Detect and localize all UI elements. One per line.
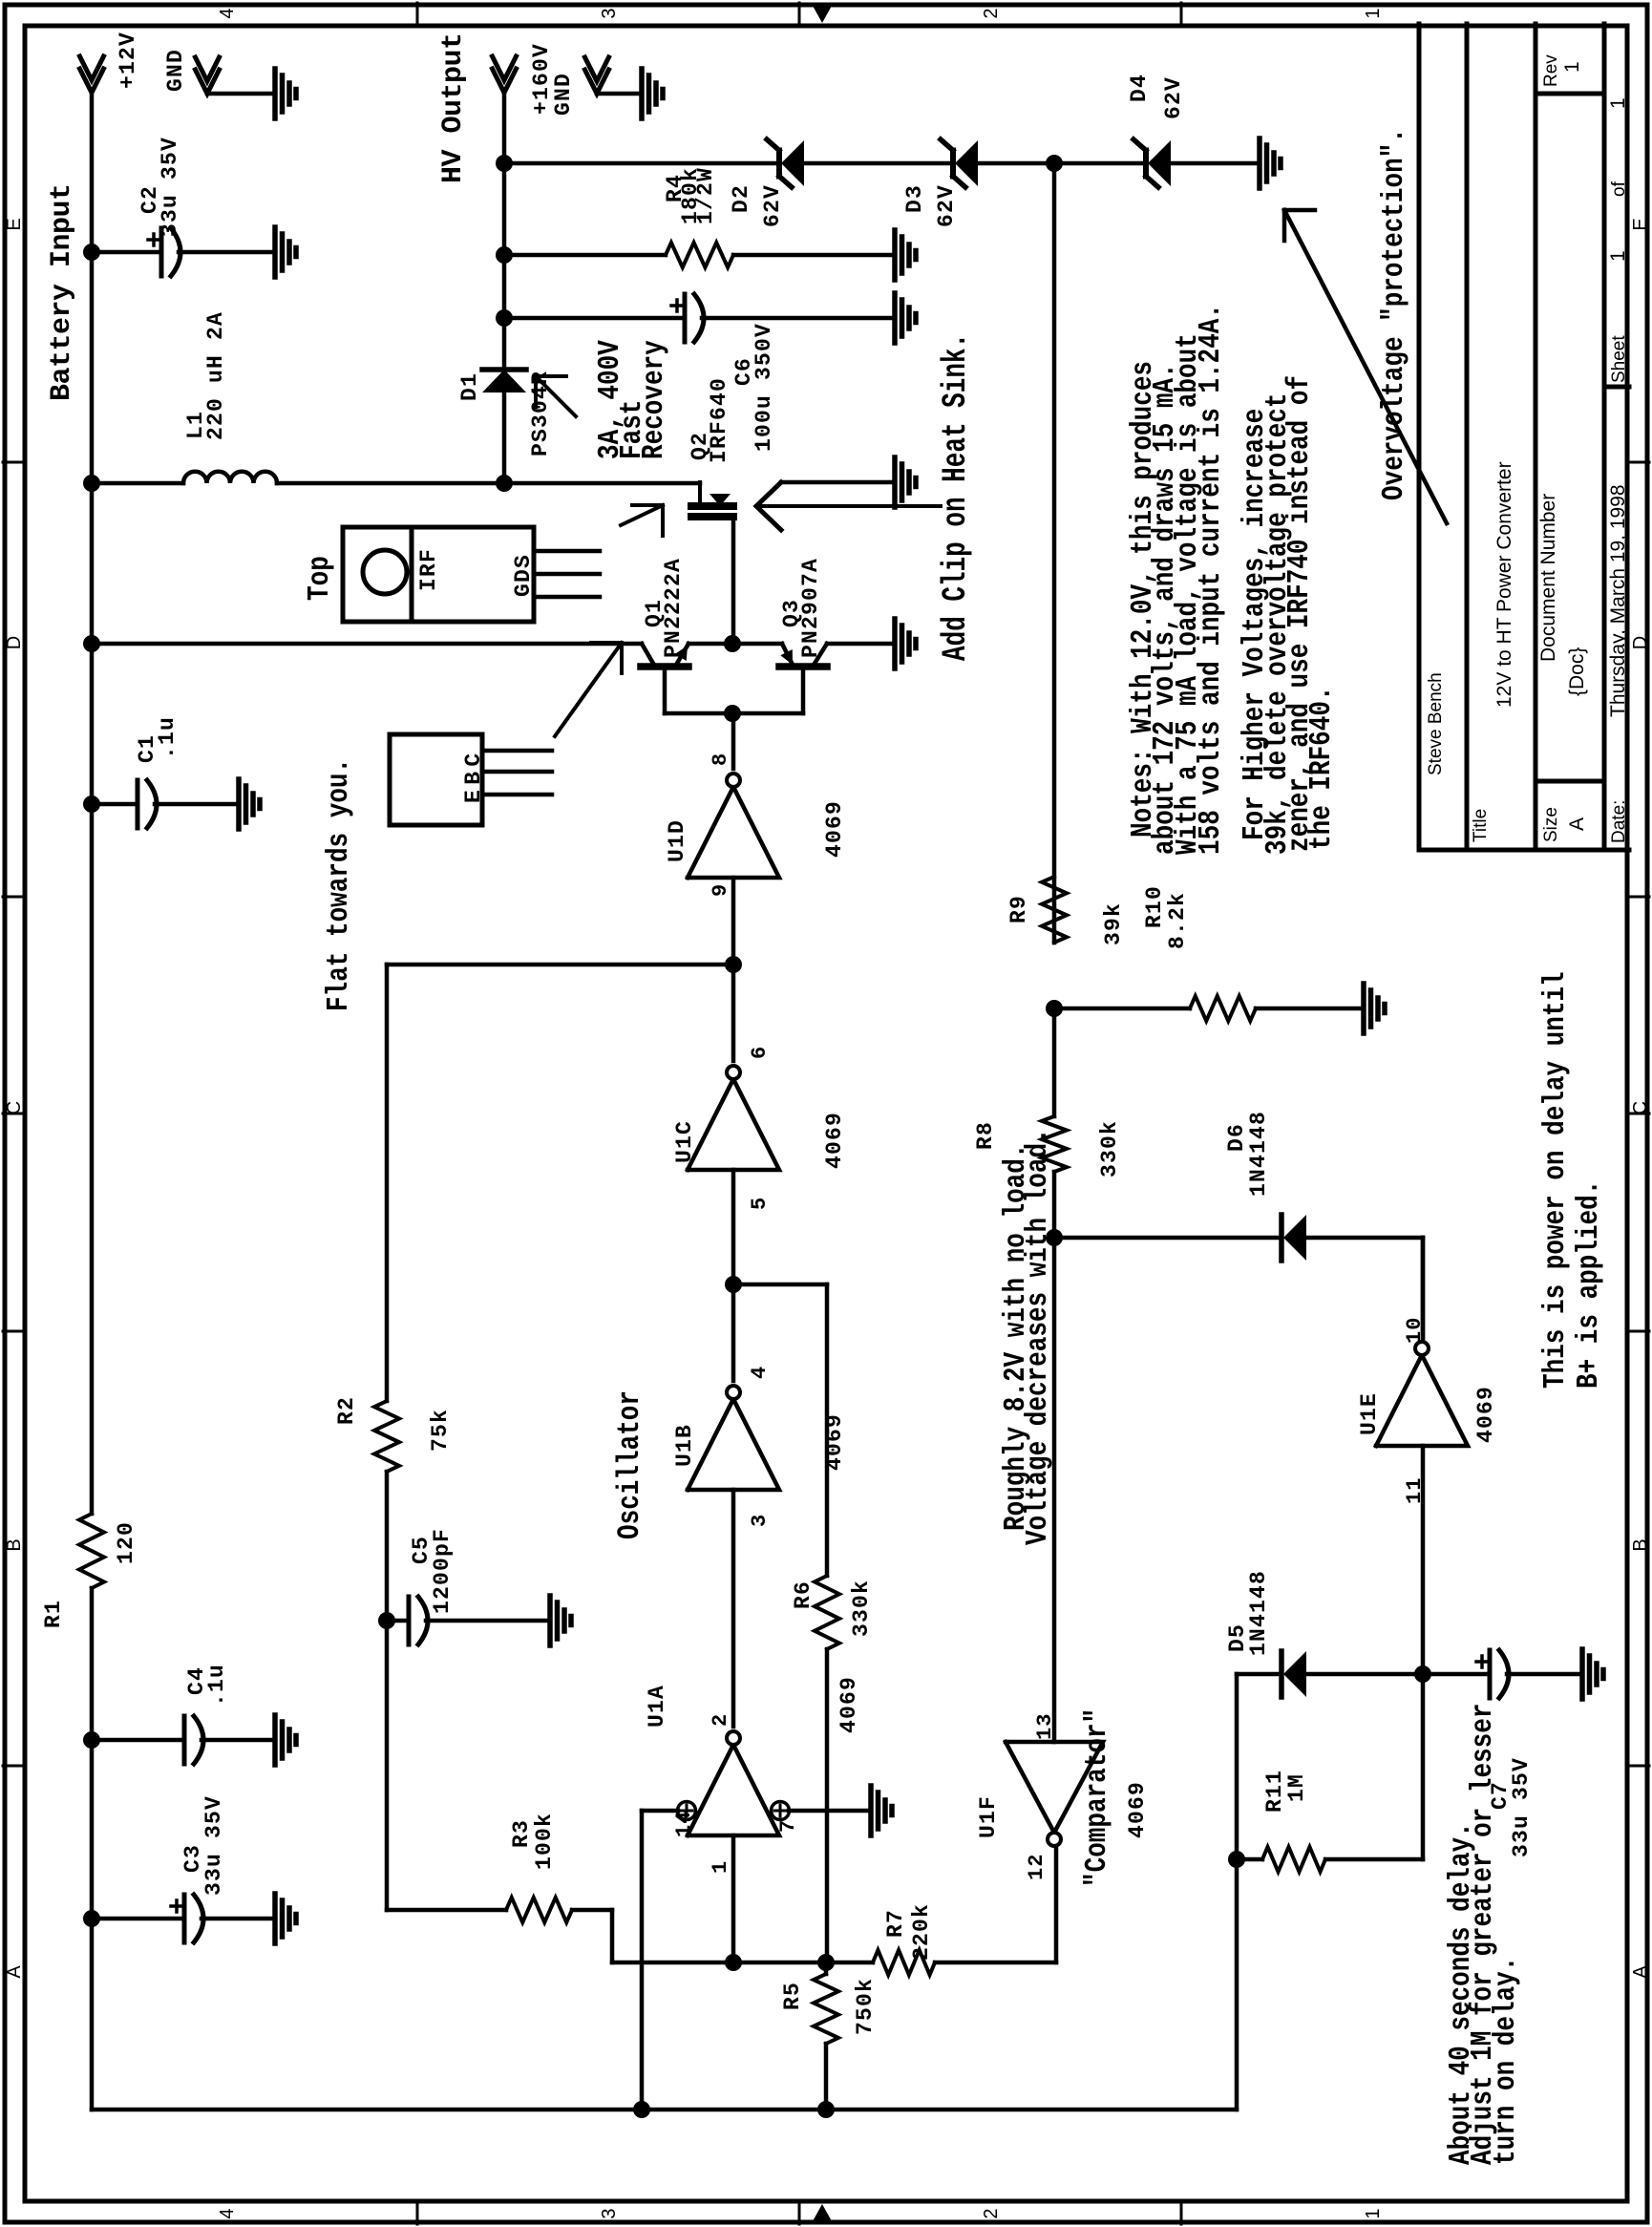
svg-text:R10: R10 bbox=[1142, 885, 1167, 928]
wire U1A out to U1B bbox=[731, 1490, 736, 1727]
junction B+ R5 bbox=[817, 2101, 835, 2118]
ground C3 bbox=[272, 1894, 278, 1943]
wire C5 branch bbox=[387, 1619, 409, 1623]
svg-text:33u 35V: 33u 35V bbox=[201, 1795, 226, 1896]
ground C7 bbox=[1579, 1649, 1585, 1699]
node GND port HV bbox=[585, 70, 609, 94]
svg-text:Voltage decreases with load.: Voltage decreases with load. bbox=[1021, 1128, 1055, 1545]
junction gate node bbox=[724, 635, 741, 652]
svg-text:GND: GND bbox=[551, 73, 576, 116]
wire input column bbox=[612, 1961, 873, 1965]
svg-text:Flat towards you.: Flat towards you. bbox=[322, 758, 356, 1011]
zone number ticks right bbox=[416, 3, 419, 24]
inductor L1 bbox=[183, 472, 277, 483]
svg-text:1/2W: 1/2W bbox=[693, 167, 718, 224]
svg-text:R1: R1 bbox=[41, 1600, 66, 1628]
svg-text:IRF: IRF bbox=[416, 548, 441, 591]
svg-text:62V: 62V bbox=[760, 184, 785, 227]
svg-text:9: 9 bbox=[709, 883, 732, 897]
svg-text:12V to HT Power Converter: 12V to HT Power Converter bbox=[1493, 461, 1515, 708]
junction rail-Q1 bbox=[83, 635, 100, 652]
wire delay node column bbox=[1237, 1672, 1280, 1677]
svg-text:HV Output: HV Output bbox=[437, 32, 470, 183]
svg-text:1: 1 bbox=[1607, 250, 1629, 262]
svg-text:3: 3 bbox=[599, 2208, 620, 2218]
svg-text:4069: 4069 bbox=[1473, 1386, 1498, 1443]
wire R11 branch bbox=[1237, 1857, 1262, 1862]
wire R6 line bbox=[825, 1284, 830, 1576]
arrow overvoltage bbox=[1284, 210, 1447, 523]
ground C4 bbox=[272, 1715, 278, 1765]
svg-text:PN2907A: PN2907A bbox=[798, 558, 823, 658]
svg-text:2: 2 bbox=[981, 8, 1002, 18]
svg-text:Thursday, March 19, 1998: Thursday, March 19, 1998 bbox=[1607, 484, 1629, 717]
svg-text:1: 1 bbox=[709, 1860, 732, 1874]
svg-text:Title: Title bbox=[1471, 809, 1491, 842]
svg-text:A: A bbox=[1566, 817, 1588, 831]
resistor R5 bbox=[814, 1974, 838, 2044]
junction rail-C2 bbox=[83, 244, 100, 261]
svg-text:Date:: Date: bbox=[1609, 800, 1629, 843]
wire R4 branch bbox=[504, 253, 666, 258]
junction divider R10 bbox=[1046, 1000, 1063, 1017]
op-amp U1A 4069 inverter bbox=[688, 1745, 779, 1835]
svg-text:R8: R8 bbox=[973, 1121, 998, 1150]
svg-text:4069: 4069 bbox=[822, 800, 847, 858]
svg-text:6: 6 bbox=[748, 1046, 772, 1059]
svg-text:U1B: U1B bbox=[672, 1424, 697, 1467]
svg-text:1: 1 bbox=[1363, 8, 1384, 18]
junction U1B out R6 bbox=[725, 1276, 742, 1293]
svg-text:+12V: +12V bbox=[116, 32, 140, 89]
svg-text:B+ is applied.: B+ is applied. bbox=[1572, 1180, 1606, 1389]
svg-text:33u 35V: 33u 35V bbox=[1509, 1757, 1534, 1857]
svg-text:39k: 39k bbox=[1101, 902, 1126, 945]
svg-text:turn on delay.: turn on delay. bbox=[1489, 1957, 1523, 2165]
svg-text:3: 3 bbox=[599, 8, 620, 18]
diode D1 PS304R bbox=[482, 370, 526, 392]
svg-text:120: 120 bbox=[114, 1521, 138, 1564]
resistor R4 bbox=[666, 243, 733, 267]
svg-text:1200pF: 1200pF bbox=[430, 1528, 455, 1614]
centering mark right edge bbox=[813, 6, 832, 23]
wire R11 to delay node bbox=[1421, 1674, 1426, 1859]
wire zener chain bbox=[504, 161, 777, 166]
junction rail-L1 bbox=[83, 475, 100, 492]
ground U1A pin7 bbox=[868, 1786, 874, 1835]
wire R6 drop bbox=[733, 1283, 827, 1287]
resistor R3 bbox=[506, 1898, 572, 1922]
junction rail-C4 bbox=[83, 1731, 100, 1749]
junction HV-zeners bbox=[496, 155, 513, 172]
capacitor C7 bbox=[1488, 1650, 1493, 1698]
svg-text:of: of bbox=[1609, 180, 1629, 197]
diode D4 zener 62V bbox=[1148, 140, 1171, 186]
op-amp U1E 4069 inverter bbox=[1376, 1355, 1468, 1446]
svg-text:8.2k: 8.2k bbox=[1165, 892, 1190, 949]
diode D3 zener 62V bbox=[955, 140, 978, 186]
resistor R10 bbox=[1190, 996, 1256, 1021]
svg-text:Steve Bench: Steve Bench bbox=[1426, 672, 1446, 775]
svg-text:75k: 75k bbox=[428, 1409, 453, 1452]
wire pin7 to ground bbox=[789, 1809, 871, 1813]
svg-text:U1C: U1C bbox=[672, 1120, 697, 1163]
wire U1A input bbox=[731, 1835, 736, 1962]
svg-text:1: 1 bbox=[1363, 2208, 1384, 2218]
svg-text:D: D bbox=[4, 636, 25, 649]
svg-text:1N4148: 1N4148 bbox=[1246, 1111, 1271, 1197]
wire rail to L1 bbox=[92, 481, 183, 486]
svg-text:{Doc}: {Doc} bbox=[1566, 647, 1588, 696]
resistor R8 bbox=[1042, 1116, 1067, 1172]
svg-text:IRF640: IRF640 bbox=[707, 377, 731, 463]
wire emitters bbox=[688, 642, 782, 647]
ground C5 bbox=[547, 1596, 553, 1645]
wire Q1 base bbox=[663, 667, 667, 713]
ground zener chain bbox=[1257, 138, 1262, 188]
wire B+ left drop bbox=[92, 2108, 1237, 2112]
svg-text:1M: 1M bbox=[1284, 1773, 1309, 1802]
wire U1B out to U1C bbox=[731, 1170, 736, 1381]
junction delay node bbox=[1414, 1665, 1431, 1683]
transistor Q3 PN2907A bbox=[779, 663, 827, 670]
svg-text:D: D bbox=[1630, 636, 1651, 649]
svg-text:Size: Size bbox=[1541, 807, 1561, 842]
svg-text:4069: 4069 bbox=[837, 1676, 861, 1733]
capacitor C1 bbox=[136, 780, 140, 828]
pin 14 power bbox=[678, 1802, 696, 1820]
op-amp U1C 4069 inverter bbox=[688, 1079, 779, 1170]
svg-text:Overvoltage "protection".: Overvoltage "protection". bbox=[1377, 128, 1411, 500]
svg-text:Top: Top bbox=[303, 556, 337, 601]
wire divider line bbox=[1052, 1172, 1057, 1742]
svg-text:2: 2 bbox=[981, 2208, 1002, 2218]
wire U1F out bbox=[1054, 1846, 1059, 1962]
junction divider D6 bbox=[1046, 1229, 1063, 1246]
svg-text:62V: 62V bbox=[934, 184, 959, 227]
wire pin14 to B+ bbox=[642, 1809, 678, 1813]
junction U1C out feedback bbox=[725, 956, 742, 973]
svg-text:A: A bbox=[1630, 1965, 1651, 1979]
wire R10 branch bbox=[1054, 1007, 1190, 1011]
wire U1D out to bases bbox=[731, 713, 736, 769]
svg-text:R3: R3 bbox=[509, 1819, 534, 1848]
title block frame bbox=[1417, 24, 1422, 850]
node +160V port bbox=[493, 69, 517, 93]
svg-text:7: 7 bbox=[776, 1819, 800, 1833]
wire R3 to input column bbox=[610, 1910, 615, 1962]
wire Q3 collector to ground bbox=[827, 642, 895, 647]
node GND port bbox=[196, 70, 220, 94]
svg-text:12: 12 bbox=[1025, 1854, 1048, 1880]
svg-text:3: 3 bbox=[748, 1514, 772, 1527]
svg-text:330k: 330k bbox=[849, 1580, 874, 1637]
op-amp U1D 4069 inverter bbox=[688, 787, 779, 878]
svg-text:D2: D2 bbox=[729, 184, 753, 213]
svg-text:A: A bbox=[4, 1965, 25, 1979]
svg-text:U1D: U1D bbox=[665, 819, 689, 862]
centering mark bottom edge bbox=[1629, 1113, 1649, 1115]
svg-text:14: 14 bbox=[672, 1811, 696, 1837]
wire rail to Q1 collector bbox=[92, 642, 642, 647]
svg-text:"Comparator": "Comparator" bbox=[1080, 1708, 1114, 1887]
capacitor C6 bbox=[683, 294, 688, 342]
node +12V port bbox=[80, 69, 104, 93]
wire C3 branch bbox=[92, 1917, 184, 1921]
svg-text:B: B bbox=[4, 1538, 25, 1551]
svg-text:Sheet: Sheet bbox=[1609, 335, 1629, 383]
pins TO-92 bbox=[482, 793, 552, 797]
svg-text:4: 4 bbox=[217, 2208, 238, 2218]
ground C1 bbox=[236, 779, 242, 829]
svg-text:1: 1 bbox=[1607, 97, 1629, 109]
arrow Add Clip bbox=[756, 504, 941, 508]
svg-text:E: E bbox=[1630, 218, 1651, 230]
svg-text:D1: D1 bbox=[457, 372, 482, 401]
svg-text:R2: R2 bbox=[334, 1396, 359, 1425]
wire C4 branch bbox=[92, 1738, 184, 1743]
diode D5 1N4148 bbox=[1283, 1651, 1306, 1697]
wire HV line bbox=[502, 392, 507, 483]
wire U1C out to U1D bbox=[731, 878, 736, 1061]
arrow D1 note bbox=[536, 376, 576, 416]
svg-text:4069: 4069 bbox=[822, 1112, 847, 1169]
centering mark top edge bbox=[3, 1113, 23, 1115]
svg-text:PN2222A: PN2222A bbox=[661, 558, 686, 658]
resistor R7 bbox=[873, 1950, 935, 1975]
transistor Q1 PN2222A bbox=[641, 663, 688, 670]
capacitor C2 bbox=[159, 228, 164, 276]
svg-text:GND: GND bbox=[163, 49, 188, 92]
wire L1 to drain node bbox=[277, 481, 700, 486]
svg-text:220k: 220k bbox=[909, 1903, 934, 1961]
ground R10 bbox=[1361, 984, 1366, 1033]
svg-text:4: 4 bbox=[217, 8, 238, 18]
svg-text:8: 8 bbox=[709, 753, 732, 766]
svg-text:2: 2 bbox=[709, 1713, 732, 1727]
wire gate drive bbox=[731, 517, 736, 644]
svg-text:R6: R6 bbox=[791, 1580, 815, 1609]
svg-text:U1E: U1E bbox=[1357, 1392, 1382, 1435]
svg-text:B: B bbox=[1630, 1538, 1651, 1551]
svg-text:D4: D4 bbox=[1127, 74, 1152, 102]
junction B+ R11 bbox=[1228, 1851, 1245, 1868]
op-amp U1B 4069 inverter bbox=[688, 1399, 779, 1490]
svg-text:U1A: U1A bbox=[645, 1685, 669, 1728]
wire delay node to U1E bbox=[1421, 1446, 1426, 1674]
junction B+ pin14 bbox=[633, 2101, 650, 2118]
junction rail-C1 bbox=[83, 795, 100, 813]
wire +12V rail bbox=[90, 1588, 95, 2110]
svg-text:Oscillator: Oscillator bbox=[611, 1390, 647, 1539]
svg-text:Rev: Rev bbox=[1541, 54, 1561, 87]
junction HV-R4 bbox=[496, 246, 513, 264]
resistor R1 bbox=[79, 1514, 104, 1588]
ground R4 bbox=[892, 230, 898, 280]
svg-text:.1u: .1u bbox=[155, 716, 180, 759]
svg-text:R5: R5 bbox=[780, 1982, 805, 2010]
resistor R9 bbox=[1042, 877, 1067, 943]
pins TO-220 bbox=[534, 595, 600, 600]
svg-text:the IRF640.: the IRF640. bbox=[1304, 686, 1339, 850]
wire D6 branch bbox=[1054, 1236, 1280, 1241]
svg-text:.1u: .1u bbox=[204, 1664, 229, 1707]
wire B+ bottom bbox=[1235, 1674, 1239, 2110]
diode D6 1N4148 bbox=[1283, 1215, 1306, 1261]
arrow TO-220 to Q2 bbox=[621, 505, 663, 525]
svg-text:E: E bbox=[4, 218, 25, 230]
capacitor C4 bbox=[182, 1716, 187, 1764]
svg-text:220 uH 2A: 220 uH 2A bbox=[203, 311, 228, 440]
wire GND port to ground bbox=[207, 92, 275, 96]
svg-text:158 volts and input current is: 158 volts and input current is 1.24A. bbox=[1194, 304, 1228, 855]
package TO-92 drawing bbox=[390, 734, 482, 825]
svg-text:Battery Input: Battery Input bbox=[46, 183, 78, 401]
svg-text:750k: 750k bbox=[853, 1978, 878, 2035]
svg-text:330k: 330k bbox=[1097, 1120, 1122, 1177]
pin 7 power bbox=[772, 1802, 790, 1820]
wire Q3 base bbox=[801, 667, 806, 713]
capacitor C3 bbox=[182, 1895, 187, 1942]
svg-text:U1F: U1F bbox=[976, 1795, 1001, 1838]
svg-text:100k: 100k bbox=[532, 1813, 557, 1870]
svg-text:1: 1 bbox=[1561, 61, 1583, 73]
ground Q2 source bbox=[892, 457, 898, 507]
resistor R11 bbox=[1262, 1847, 1325, 1872]
wire HV gnd port bbox=[597, 92, 642, 96]
capacitor C5 bbox=[407, 1597, 412, 1644]
transistor Q2 IRF640 bbox=[691, 502, 733, 510]
op-amp U1F 4069 inverter bbox=[1006, 1742, 1103, 1833]
svg-text:Add Clip on Heat Sink.: Add Clip on Heat Sink. bbox=[938, 333, 976, 661]
svg-text:Recovery: Recovery bbox=[637, 340, 671, 459]
svg-text:R9: R9 bbox=[1006, 895, 1031, 923]
svg-text:1N4148: 1N4148 bbox=[1246, 1570, 1271, 1656]
wire Q2 source to ground bbox=[781, 480, 895, 485]
wire feedback U1C-U1D to R2 line bbox=[387, 963, 733, 967]
junction HV-C6 bbox=[496, 309, 513, 327]
package TO-220 drawing bbox=[343, 527, 534, 622]
zone letter ticks bottom bbox=[1629, 1765, 1649, 1768]
svg-text:4: 4 bbox=[748, 1366, 772, 1379]
svg-text:13: 13 bbox=[1033, 1713, 1057, 1740]
wire R5 line bbox=[824, 2044, 829, 2110]
ground gnd-port bbox=[272, 69, 278, 118]
junction bases-U1D bbox=[724, 705, 741, 722]
wire D6 to U1E out bbox=[1421, 1238, 1426, 1341]
ground C2 bbox=[272, 227, 278, 277]
svg-text:100u 350V: 100u 350V bbox=[752, 323, 776, 452]
svg-text:D3: D3 bbox=[902, 184, 927, 213]
svg-text:Document Number: Document Number bbox=[1537, 494, 1559, 662]
svg-text:4069: 4069 bbox=[1125, 1781, 1150, 1838]
junction drain-D1 bbox=[496, 475, 513, 492]
junction R6 R5 node bbox=[817, 1954, 835, 1971]
centering mark left edge bbox=[813, 2204, 832, 2221]
junction C5 node bbox=[378, 1612, 395, 1629]
svg-text:This is power on delay until: This is power on delay until bbox=[1538, 971, 1573, 1389]
resistor R2 bbox=[374, 1401, 399, 1472]
zone number ticks left bbox=[416, 2203, 419, 2224]
zone letter ticks top bbox=[3, 1765, 23, 1768]
ground C6 bbox=[892, 293, 898, 343]
wire U1E out bbox=[1421, 1238, 1426, 1337]
ground Q3 bbox=[892, 619, 898, 668]
diode D2 zener 62V bbox=[781, 140, 804, 186]
wire C1 branch bbox=[92, 802, 138, 807]
wire R2 line bbox=[385, 965, 390, 1401]
wire C6 branch bbox=[504, 316, 685, 321]
wire C2 branch bbox=[92, 250, 161, 255]
junction rail-C3 bbox=[83, 1910, 100, 1927]
svg-text:62V: 62V bbox=[1161, 76, 1186, 119]
ground HV gnd bbox=[639, 69, 645, 118]
junction pin1 node bbox=[725, 1954, 742, 1971]
resistor R6 bbox=[815, 1576, 839, 1649]
wire R3 column bbox=[387, 1908, 506, 1913]
svg-text:33u 35V: 33u 35V bbox=[158, 137, 182, 237]
wire bases tie bbox=[665, 711, 803, 716]
svg-text:R7: R7 bbox=[883, 1909, 908, 1938]
svg-text:11: 11 bbox=[1403, 1477, 1427, 1504]
arrow TO-92 to Q1 bbox=[555, 643, 622, 736]
junction zener-R9 bbox=[1046, 155, 1063, 172]
svg-text:5: 5 bbox=[748, 1197, 772, 1210]
